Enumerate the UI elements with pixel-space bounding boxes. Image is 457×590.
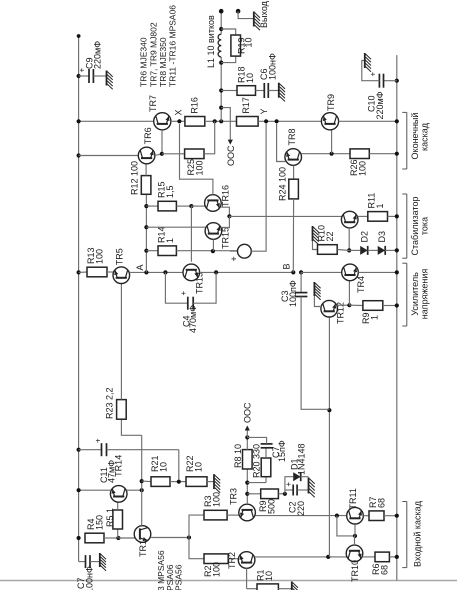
wire B to TR4 [301,271,342,273]
label R20 [252,444,262,478]
capacitor C7fb (15pF) [261,444,273,448]
label R1 value [264,571,274,581]
svg-text:10: 10 [264,571,274,581]
wire R10 feed [313,241,318,250]
label R7 [368,496,378,508]
label R15 [157,181,167,198]
label R26 value [358,161,368,176]
capacitor C2 (220) [293,485,297,496]
node D3 rail [395,248,399,252]
wire TR6 collector [79,155,139,157]
wire zobel link [221,90,237,92]
svg-text:напряжения: напряжения [419,269,429,320]
wire R4 to node [104,537,118,539]
wire R9b link [349,304,363,306]
wire mirror diode link [337,516,355,536]
label R14 value [165,238,175,243]
node R9 branch [245,492,249,496]
svg-text:1,5: 1,5 [165,185,175,198]
wire TR11 base [354,524,356,536]
label TR5 [115,248,125,265]
svg-text:TR4: TR4 [356,276,366,293]
wire R14 link [146,250,158,252]
node mirror cross [335,514,339,518]
svg-text:R12 100: R12 100 [130,161,140,195]
svg-text:10: 10 [194,462,204,472]
label TR9 [326,94,336,111]
node output gnd terminal [236,9,241,14]
label R13 value [95,249,105,264]
node N1 [283,492,287,496]
wire TR16 collector [191,205,204,207]
label types2 line2 [165,564,175,590]
figure border left [0,580,457,582]
label C10 plus [369,72,378,77]
svg-text:TR10: TR10 [350,560,360,582]
node bus tap [219,119,223,123]
transistor TR9 [321,113,338,130]
arrow OOC [245,426,250,431]
label C2 plus [284,482,293,487]
svg-text:10: 10 [159,462,169,472]
wire TR2 base to edge [246,568,248,588]
node R19 left tap [219,60,223,64]
label C4 plus [179,291,188,296]
label R22 [185,455,195,472]
node C4 top [163,270,167,274]
wire TR4 emitter to rail [358,271,397,273]
label node Y [259,108,269,114]
wire R19 left stub [221,56,236,63]
svg-text:R5 1: R5 1 [105,508,115,527]
svg-text:TR5: TR5 [115,248,125,265]
svg-text:47мФ: 47мФ [107,460,117,483]
wire R22 to ground [207,481,214,483]
wire C4 loop bottom [193,272,216,303]
wire C11 down [107,449,179,451]
label C11 [99,467,109,483]
label C2 value [296,501,306,516]
ground R22 [214,474,220,493]
svg-text:TR3: TR3 [229,488,239,505]
resistor R6 (68) [375,552,389,562]
label R21 [150,455,160,472]
wire R13 to TR5 [107,271,113,273]
wire R5 to TR14 [117,502,119,510]
wire TR1 base [118,537,134,539]
label node B [282,263,292,269]
resistor R9 (500) [261,489,279,499]
svg-text:TR11 -TR16 MPSA06: TR11 -TR16 MPSA06 [168,5,178,87]
wire R21 top link [142,480,151,483]
label R3 value [212,492,222,507]
node TR12 base tap [326,555,330,559]
resistor R13 (100) [87,267,107,277]
svg-text:ООС: ООС [226,145,236,166]
label TR6 [143,127,153,144]
node mirror bases [353,534,357,538]
svg-text:220: 220 [296,501,306,516]
node divider [177,480,181,484]
label C6 value [268,53,278,80]
node C9 rail [77,74,81,78]
label R14 [157,226,167,243]
label R1 [256,569,266,581]
ground C10 [365,53,371,72]
node V+ terminal [77,34,81,38]
label R10 value [325,231,335,241]
svg-text:TR8 MJE350: TR8 MJE350 [158,37,168,87]
wire R5 link [117,529,119,538]
resistor R1 (10) [257,584,278,590]
capacitor C11 (47uF) [102,443,107,456]
capacitor C7 (100nF) [86,555,91,568]
wire R7 to rail [384,515,397,517]
resistor R8 (10) [243,450,253,469]
wire N1 to D1 [285,477,293,494]
wire C9 link [79,75,89,77]
label TR16 [221,185,231,207]
node OOC bus tap [219,106,223,110]
ground output [254,12,260,31]
label TR15 [221,227,231,249]
wire R15 link [146,205,158,207]
wire D2-D3 link [368,249,378,251]
label TR2 [227,552,237,569]
node R9b rail [395,303,399,307]
label OOC main [226,145,236,166]
node C4 bottom [214,270,218,274]
label R9 [258,500,268,512]
svg-text:TR15: TR15 [221,227,231,249]
svg-text:500: 500 [267,499,277,514]
node R20 branch [245,481,249,485]
wire output bus [220,57,222,121]
svg-text:TR8: TR8 [287,128,297,145]
node TR7 base node [160,152,164,156]
node output terminal [219,9,224,14]
svg-text:каскад: каскад [419,122,429,151]
wire R26 to rail [369,153,397,155]
label input stage [413,500,423,567]
capacitor C3 (100pF) [295,293,308,297]
transistor TR11 [347,507,364,524]
node R15 top [144,204,148,208]
wire TR8 base lead [293,166,295,180]
node ctrl emitters [227,214,231,218]
transistor TR8 [285,149,302,166]
svg-text:тока: тока [419,217,429,235]
svg-text:+: + [94,438,103,443]
label R18 [237,66,247,83]
node TR4 base [347,303,351,307]
label TR11 [348,488,358,509]
svg-text:100: 100 [212,562,222,577]
wire TR4 base link [348,281,350,306]
label output [259,0,269,28]
resistor R25 (100) [185,149,204,159]
label C11 value [107,460,117,483]
transistor TR7 [154,113,171,130]
wire TR15 emitter [222,216,230,227]
label TR8 [287,128,297,145]
resistor R22 (10) [186,477,207,487]
wire TR14 emitter to rail [79,489,111,491]
ground TR12 [314,282,320,300]
label R2 value [212,562,222,577]
label C9 plus [78,68,87,73]
wire ref line right [145,271,147,273]
label types2 line1 [156,550,166,590]
label D3 [377,231,387,243]
label types line2 [149,22,159,87]
label TR12 [336,302,346,324]
resistor R16 [185,117,205,127]
wire tail to R3 [189,515,204,537]
label R4 value [95,515,105,530]
wire TR13 to B [200,271,294,273]
transistor TR13 [183,264,200,281]
inductor L1 [218,34,221,57]
resistor R17 [237,117,259,127]
svg-text:TR16: TR16 [221,185,231,207]
resistor R15 (1,5) [158,201,176,211]
label R15 value [165,185,175,198]
transistor TR4 [342,264,359,281]
svg-text:Y: Y [259,108,269,114]
svg-text:100нФ: 100нФ [85,566,95,590]
wire R25 to bus [204,121,215,154]
label TR1 [138,540,148,557]
node B [291,270,295,274]
wire R10 to node [337,249,349,252]
label R12 [130,161,140,195]
label types4 line4 [168,5,178,87]
svg-text:PSA56: PSA56 [174,564,184,590]
node C10 rail [395,79,399,83]
svg-text:220мФ: 220мФ [375,91,385,119]
wire C4 loop top [165,272,187,303]
node C11 rail [77,448,81,452]
label R18 value [245,73,255,83]
wire C7 to ground [90,561,100,563]
wire C7fb to OOC [247,437,266,444]
wire TR3 base line [246,469,248,504]
label OOC [243,402,253,423]
label C7 [76,577,86,589]
resistor R3 (100) [204,510,227,520]
node R26 rail [395,152,399,156]
wire R19 right stub [221,29,236,35]
wire R2 to TR2 [228,558,238,560]
wire C11 feed [79,449,102,451]
wire R6 to rail [389,556,396,558]
wire TR7 collector [79,120,154,122]
label out-stage line1 [410,113,420,160]
svg-text:Входной каскад: Входной каскад [413,500,423,567]
svg-text:100: 100 [358,161,368,176]
wire TRx base [348,228,350,251]
label C3 [280,290,290,302]
resistor R24 (100) [289,179,299,199]
wire TRx emitter [358,215,368,217]
svg-text:B: B [282,263,292,269]
svg-text:R23 2,2: R23 2,2 [105,387,115,419]
node R11 rail [395,214,399,218]
svg-text:TR7: TR7 [148,95,158,112]
label R25 [186,159,196,176]
node TR9 base node [330,152,334,156]
svg-text:100пФ: 100пФ [288,280,298,307]
label R11 value [375,203,385,208]
label C10 value [375,91,385,119]
label R9b [361,312,371,324]
wire R14 line [176,250,237,252]
svg-text:1N4148: 1N4148 [297,443,307,475]
resistor R7 (68) [369,511,384,521]
node TR7 rail [77,119,81,123]
wire Vbias to Y [251,124,266,252]
wire TR7 emitter to X [171,120,185,122]
wire R16 to bus [205,120,237,122]
node TR13 base node [189,204,193,208]
node R6 rail [395,555,399,559]
svg-text:+: + [179,291,188,296]
label TR4 [356,276,366,293]
wire TR15 base lead [212,239,214,251]
wire TR5 collector [130,271,183,273]
svg-text:10: 10 [244,37,254,47]
svg-text:150: 150 [95,515,105,530]
svg-text:TR6: TR6 [143,127,153,144]
svg-text:+: + [229,256,239,261]
node TR4 rail [395,270,399,274]
transistor TR14 [110,486,127,503]
wire R1 link [247,588,257,590]
node TRx base [347,248,351,252]
ground R1 [292,582,298,590]
wire TR8 collector [301,153,350,155]
bracket current regulator [402,194,407,258]
label VAS line2 [419,269,429,320]
label R25 value [195,160,205,175]
wire C11 to divider [178,450,180,482]
svg-text:ООС: ООС [243,402,253,423]
svg-text:R17: R17 [241,97,251,114]
resistor R12 (100) [141,176,151,195]
transistor TR16 [205,195,222,212]
svg-text:100: 100 [195,160,205,175]
wire C10 link [384,80,397,82]
node tail [187,535,191,539]
wire TR7 base [161,130,163,154]
wire C7 feed [79,561,86,563]
wire TR10 emitter [363,556,375,558]
diode D2 [360,246,368,255]
wire R18 to C6 [256,90,265,92]
wire TR2 collector [255,556,347,558]
wire D1 to ground run [301,476,309,478]
svg-text:100нФ: 100нФ [268,53,278,80]
bracket VAS [402,263,407,326]
resistor R18 (10) [237,86,256,96]
wire TR1 emitter [151,537,189,539]
capacitor C10 (220uF) [379,74,383,88]
svg-text:TR1: TR1 [138,540,148,557]
label out-stage line2 [419,122,429,151]
svg-text:TR9: TR9 [326,94,336,111]
label Vbias plus [229,256,239,261]
label types2 line3 [174,564,184,590]
wire R8 to OOC node [246,437,248,449]
wire current-ref line [141,435,143,525]
label R22 value [194,462,204,472]
label R4 [86,518,96,530]
node TR8 tap [275,119,279,123]
svg-text:TR6 MJE340: TR6 MJE340 [139,37,149,87]
svg-text:Выход: Выход [259,0,269,28]
svg-text:TR11: TR11 [348,488,358,509]
svg-text:A: A [135,264,145,270]
label C9 value [93,41,103,69]
wire R15 to node [176,205,191,207]
node R14 top [144,249,148,253]
wire TR15 collector [146,226,205,228]
wire R20 link [247,482,266,484]
ground R10 [313,226,319,245]
wire bias ref line [145,194,147,272]
label TR14 [113,455,123,477]
svg-text:220мФ: 220мФ [93,41,103,69]
bracket input stage [402,502,407,568]
transistor TR2 [238,552,255,569]
node TR6 rail [77,153,81,157]
capacitor C4 (470uF) [188,297,193,310]
label R21 value [159,462,169,472]
label R2 [203,565,213,577]
resistor R2 (100) [204,554,228,564]
diode D3 [378,246,386,255]
wire R24 to B [292,199,294,273]
svg-text:470мФ: 470мФ [188,305,198,333]
wire TR12 emitter [337,304,350,306]
wire TR10 base [354,536,356,545]
svg-text:R24 100: R24 100 [278,167,288,201]
svg-text:68: 68 [377,498,387,508]
wire TR5 base line [120,283,122,399]
label R8 [233,444,243,468]
wire C10 to ground [362,61,380,81]
svg-text:22: 22 [325,231,335,241]
wire tail to R2 [189,538,204,559]
wire TR12 collector [314,296,321,307]
resistor R26 (100) [350,149,369,159]
label R9 value [267,499,277,514]
label R13 [86,247,96,264]
wire TR9 collector [339,120,397,122]
node OOC [245,435,249,439]
wire bus after L1 [220,11,222,34]
transistor TR1 [134,526,151,543]
label VAS line1 [410,272,420,316]
wire C3 right [300,272,302,292]
node R7 rail [395,514,399,518]
svg-text:1: 1 [165,238,175,243]
label D2 [360,231,370,243]
label R23 [105,387,115,419]
node R4/R5/TR1 [116,536,120,540]
wire TR6 emitter [155,154,162,156]
